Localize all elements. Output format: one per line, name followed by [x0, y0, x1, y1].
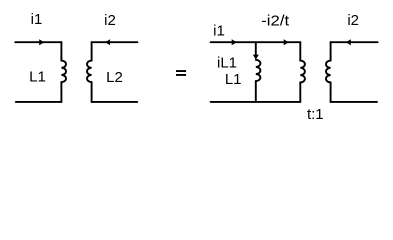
wire shunt branch lower	[255, 81, 257, 102]
svg-text:iL1: iL1	[217, 55, 237, 72]
inductor ideal transformer secondary	[326, 61, 331, 83]
inductor L2 (left circuit)	[87, 61, 92, 82]
arrowhead current iL1 (pointing down into L1)	[253, 55, 259, 60]
svg-text:L1: L1	[225, 71, 242, 88]
wire top of middle circuit	[211, 41, 301, 43]
wire bottom-right of left circuit	[92, 101, 138, 103]
wire bottom-left of left circuit	[16, 101, 62, 103]
wire right vertical upper (left circuit secondary)	[91, 42, 93, 60]
wire bottom of middle circuit	[211, 101, 301, 103]
wire top of right loop	[331, 41, 378, 43]
svg-text:i1: i1	[213, 23, 225, 40]
svg-text:L2: L2	[106, 69, 123, 86]
wire top-right of left circuit	[92, 41, 138, 43]
arrowhead current -i2/t (pointing right)	[284, 39, 289, 45]
inductor L1 (middle circuit shunt branch)	[256, 60, 261, 81]
wire left vertical upper (left circuit primary)	[60, 42, 62, 60]
svg-text:i2: i2	[347, 12, 359, 29]
svg-text:i1: i1	[31, 11, 43, 28]
arrowhead current i1 (left circuit, pointing right)	[39, 39, 44, 45]
wire left vertical lower (left circuit primary)	[60, 82, 62, 102]
arrowhead current i1 (middle circuit, pointing right)	[232, 39, 237, 45]
inductor ideal transformer primary	[300, 61, 305, 83]
wire right vertical lower (ideal transformer primary)	[299, 82, 301, 102]
svg-text:-i2/t: -i2/t	[261, 13, 290, 30]
svg-text:t:1: t:1	[307, 106, 324, 123]
svg-text:i2: i2	[104, 12, 116, 29]
wire right vertical lower (left circuit secondary)	[91, 82, 93, 102]
wire bottom of right loop	[331, 101, 377, 103]
inductor L1 (left circuit)	[61, 61, 66, 82]
arrowhead current i2 (left circuit, pointing left)	[105, 39, 110, 45]
equals sign between circuits	[176, 70, 186, 72]
wire stub at node for iL1 arrow	[255, 42, 257, 55]
wire left vertical lower (ideal transformer secondary)	[330, 82, 332, 102]
wire left vertical upper (ideal transformer secondary)	[330, 42, 332, 60]
wire top-left of left circuit	[15, 41, 61, 43]
wire right vertical upper (ideal transformer primary)	[299, 42, 301, 60]
arrowhead current i2 (right loop, pointing left)	[346, 39, 351, 45]
svg-text:L1: L1	[29, 69, 46, 86]
